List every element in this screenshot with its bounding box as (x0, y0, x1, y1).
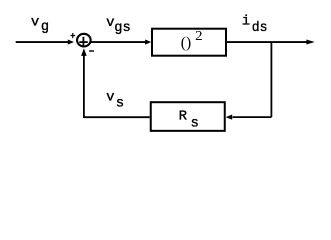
svg-text:s: s (191, 116, 199, 132)
svg-text:): ) (186, 35, 191, 52)
svg-text:v: v (106, 15, 114, 31)
svg-text:g: g (41, 19, 49, 35)
svg-text:s: s (116, 96, 124, 112)
svg-text:gs: gs (114, 20, 131, 36)
svg-text:v: v (31, 15, 39, 31)
svg-text:2: 2 (195, 29, 202, 44)
svg-text:R: R (179, 109, 188, 125)
svg-text:v: v (106, 90, 114, 106)
svg-text:i: i (242, 14, 250, 30)
svg-text:ds: ds (252, 20, 268, 36)
